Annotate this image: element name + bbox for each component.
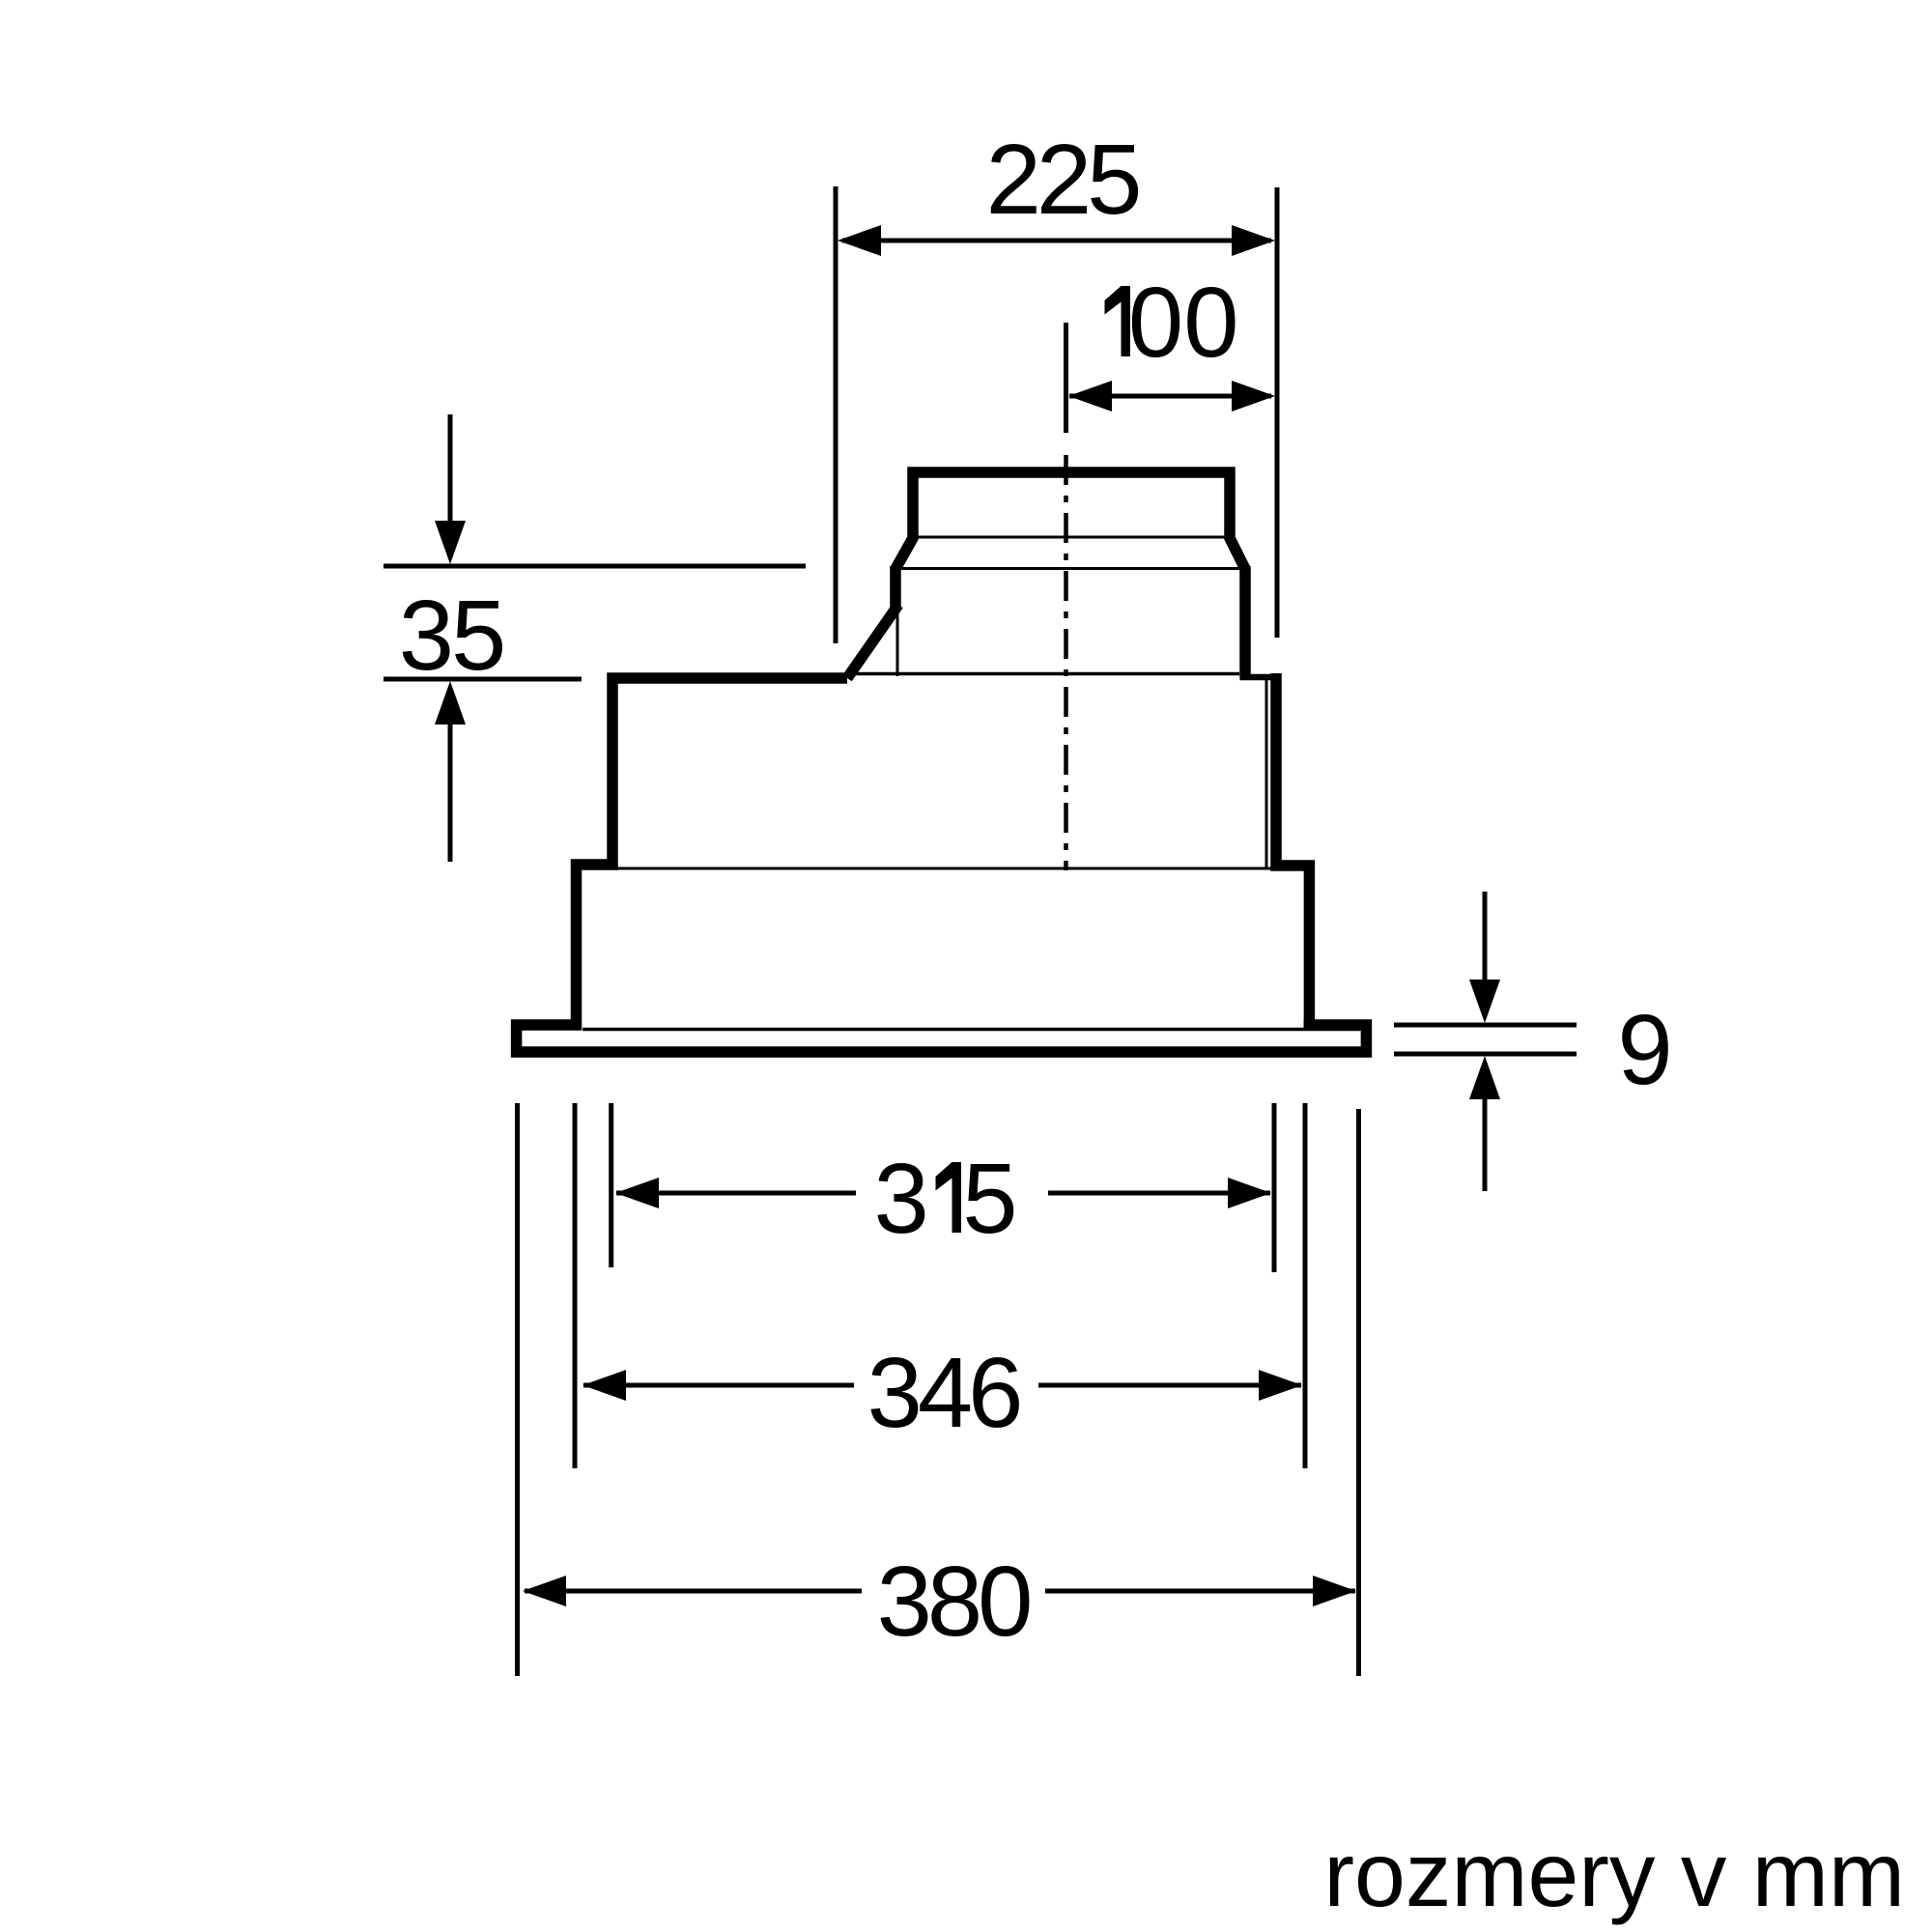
arrowhead 9 down	[1469, 980, 1500, 1023]
extension line 35 top	[384, 564, 806, 569]
flange plate top surface line	[582, 1028, 1360, 1032]
arrowhead 100 right	[1232, 381, 1275, 412]
dimension line 346 left segment	[583, 1383, 854, 1388]
collar flare right edge	[1239, 566, 1251, 678]
extension line 35 bottom	[384, 677, 582, 682]
centerline solid tick	[1064, 323, 1068, 433]
middle tier top surface line	[614, 867, 1304, 870]
roof top surface line	[847, 672, 1239, 676]
collar flare bottom seam line	[895, 567, 1246, 570]
arrowhead 346 left	[582, 1370, 626, 1401]
dimension line 380 right segment	[1045, 1589, 1355, 1594]
dimension line 346 right segment	[1038, 1383, 1301, 1388]
extension line 315 left	[609, 1103, 613, 1267]
duct collar outline	[895, 472, 1245, 569]
arrowhead 35 up	[435, 681, 466, 724]
label 100	[1105, 267, 1239, 378]
collar flare left edge (thin part)	[896, 609, 899, 676]
centerline dash-dot	[1064, 455, 1068, 870]
svg-text:rozmery v mm: rozmery v mm	[1323, 1824, 1905, 1926]
extension line 346 left	[573, 1103, 578, 1468]
arrowhead 9 up	[1469, 1056, 1500, 1099]
body right contour	[1276, 673, 1309, 1030]
body left contour	[577, 678, 848, 1030]
bottom flange plate outline	[517, 1025, 1367, 1052]
dimension line 225	[842, 239, 1271, 243]
collar flare left edge (thick part)	[890, 566, 901, 609]
svg-text:35: 35	[399, 580, 504, 691]
arrow line 9 up	[1483, 1098, 1488, 1191]
dimension line 100	[1069, 394, 1271, 399]
svg-text:380: 380	[877, 1546, 1031, 1657]
arrow line 35 down	[448, 414, 453, 526]
arrow line 9 down	[1483, 892, 1488, 983]
svg-text:00: 00	[1128, 267, 1239, 378]
arrowhead 380 right	[1313, 1576, 1356, 1606]
dimension line 380 left segment	[525, 1589, 862, 1594]
extension line 315 right	[1272, 1103, 1277, 1272]
arrowhead 225 right	[1232, 225, 1275, 256]
arrowhead 35 down	[435, 521, 466, 564]
step flare to body edge	[1240, 674, 1282, 681]
extension line 9 top	[1394, 1023, 1577, 1028]
label 315	[874, 1143, 1018, 1254]
arrowhead 100 left	[1068, 381, 1112, 412]
extension line 380 left	[515, 1103, 520, 1676]
arrowhead 315 left	[615, 1178, 659, 1208]
dimension line 315 left segment	[616, 1191, 856, 1196]
extension line 225/100 right	[1275, 187, 1280, 638]
extension line 346 right	[1303, 1103, 1308, 1468]
arrowhead 346 right	[1259, 1370, 1302, 1401]
dimension line 315 right segment	[1048, 1191, 1270, 1196]
arrowhead 315 right	[1228, 1178, 1271, 1208]
svg-text:225: 225	[986, 124, 1139, 235]
extension line 9 bottom	[1394, 1052, 1577, 1057]
arrowhead 380 left	[523, 1576, 566, 1606]
collar inner seam line	[918, 536, 1225, 539]
svg-text:5: 5	[962, 1143, 1017, 1254]
extension line 225 left	[834, 186, 838, 643]
sloped roof diagonal	[847, 605, 898, 678]
svg-text:3: 3	[874, 1143, 929, 1254]
arrow line 35 up	[448, 720, 453, 862]
arrowhead 225 left	[838, 225, 881, 256]
body right inner line	[1265, 680, 1268, 867]
svg-text:346: 346	[867, 1337, 1020, 1448]
extension line 380 right	[1356, 1109, 1361, 1676]
svg-text:9: 9	[1617, 994, 1672, 1105]
